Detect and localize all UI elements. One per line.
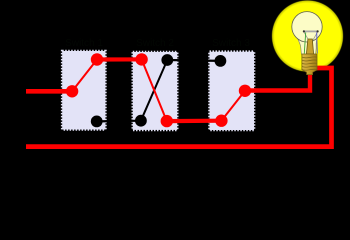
S2 lever black (TR-BL) [141, 60, 167, 121]
lamp filament bar [303, 30, 319, 32]
S1 top traveler terminal [91, 53, 103, 65]
lamp support wire (blue) [316, 32, 319, 53]
S3 lever arm [221, 91, 245, 121]
lamp support wire (green) [304, 32, 305, 53]
wire: S1 bottom black traveler to S2 bottom-left (black) [97, 120, 141, 123]
S3 top-left terminal (black) [215, 55, 227, 67]
S1 common terminal [66, 85, 78, 97]
S3 common terminal [239, 85, 251, 97]
svg-text:Switch 3: Switch 3 [212, 38, 250, 49]
wire: S1 traveler top to S2 top-left [97, 57, 142, 61]
wire: feed from left to S1 common [26, 89, 72, 94]
wire: lamp base to right rail and bottom return rail [26, 68, 332, 147]
lamp glass globe [292, 12, 322, 42]
svg-text:Switch 2: Switch 2 [136, 38, 174, 49]
switch S2 body [133, 52, 177, 130]
S3 bottom-left terminal [215, 115, 227, 127]
wire: S3 common to lamp base [245, 73, 310, 91]
S1 bottom traveler terminal (black) [91, 116, 103, 128]
switch S1 body [62, 51, 105, 130]
lamp neck glass [297, 37, 318, 55]
svg-text:Switch 1: Switch 1 [65, 38, 103, 49]
S1 lever arm [72, 60, 97, 92]
S2 top-right terminal (black) [161, 54, 173, 66]
S2 lever red (TL-BR) [142, 59, 167, 121]
S2 top-left terminal [135, 53, 147, 65]
wire: S2 top-right to S3 top-left (black) [167, 59, 220, 62]
lamp glow [271, 0, 343, 72]
switch S3 body [210, 52, 255, 130]
S2 bottom-left terminal (black) [135, 115, 147, 127]
wire: S2 bottom-right to S3 bottom-left [167, 119, 222, 124]
lamp inner stem flare lines [304, 32, 317, 39]
S2 bottom-right terminal [161, 115, 173, 127]
lamp glass stem [306, 39, 313, 54]
lamp screw base [302, 54, 317, 75]
